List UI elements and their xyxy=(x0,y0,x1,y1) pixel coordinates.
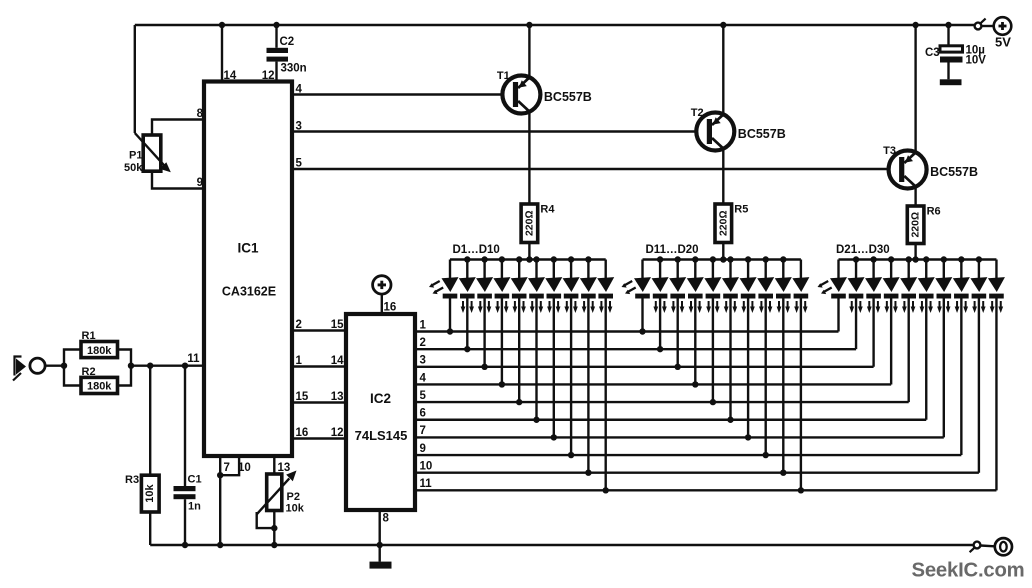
svg-text:IC1: IC1 xyxy=(237,241,259,256)
LED D12 xyxy=(652,277,669,313)
resistor R2 180k (box) xyxy=(81,377,118,393)
wire: D16 cathode to line 6 xyxy=(729,299,731,420)
svg-text:10k: 10k xyxy=(144,484,156,503)
wire: bus to D2 anode xyxy=(466,260,468,279)
junction: bus tap D14 xyxy=(692,256,698,262)
wire: bus to D5 anode xyxy=(518,260,520,279)
wire: D9 cathode to line 10 xyxy=(587,299,589,473)
svg-text:16: 16 xyxy=(384,302,397,314)
LED D15 xyxy=(704,277,721,313)
junction: line 6 / D16 xyxy=(727,417,733,423)
wire: IC1 pin 3 to T2 base xyxy=(292,130,707,132)
wire: bus to D24 anode xyxy=(890,260,892,279)
decoder IC2 74LS145 (box) xyxy=(346,314,415,510)
wire: IC2 output line 3 xyxy=(415,366,874,368)
wire: bus to D20 anode xyxy=(800,260,802,279)
LED D19 xyxy=(775,277,792,313)
wire: IC2 output line 10 xyxy=(415,472,979,474)
junction: bus tap D24 xyxy=(888,256,894,262)
junction: bus tap D18 xyxy=(763,256,769,262)
LED D8 xyxy=(563,277,580,313)
svg-text:C1: C1 xyxy=(188,474,202,486)
wire: T4 collector to R4 xyxy=(528,112,530,204)
svg-text:T2: T2 xyxy=(691,107,704,119)
wire: anode bus bank 2 xyxy=(643,258,801,260)
junction: rail / C3 xyxy=(945,22,951,28)
junction: bus / R4 xyxy=(526,256,532,262)
junction: bus tap D13 xyxy=(675,256,681,262)
junction: line 5 / D5 xyxy=(516,399,522,405)
wire: bus to D12 anode xyxy=(659,260,661,279)
wire: split up to R1 xyxy=(64,350,81,366)
wire: bus to D10 anode xyxy=(605,260,607,279)
wire: rail to T3 emitter xyxy=(914,25,916,152)
junction: pin 8 / ground rail xyxy=(377,542,383,548)
wire: R4 to anode bus xyxy=(528,243,530,260)
svg-text:74LS145: 74LS145 xyxy=(355,428,408,443)
wire: bus to D26 anode xyxy=(925,260,927,279)
LED D24 xyxy=(883,277,900,313)
svg-text:R6: R6 xyxy=(927,206,941,218)
svg-text:220Ω: 220Ω xyxy=(910,212,922,238)
svg-text:R4: R4 xyxy=(540,204,555,216)
junction: P2 wiper/bottom xyxy=(271,525,277,531)
wire: terminal to +5V symbol xyxy=(982,25,994,27)
wire: D28 cathode to line 9 xyxy=(960,299,962,456)
svg-text:R3: R3 xyxy=(125,474,139,486)
junction: line 10 / D9 xyxy=(585,470,591,476)
wire: rail to T1 emitter xyxy=(528,25,530,77)
wire: IC1 pin 10 bracket to pin 7 xyxy=(220,456,239,475)
wire: D21 cathode to line 1 xyxy=(837,299,839,332)
svg-text:D11…D20: D11…D20 xyxy=(646,244,699,256)
junction: bus tap D7 xyxy=(551,256,557,262)
resistor R6 220R (box) xyxy=(907,206,924,244)
wire: D15 cathode to line 5 xyxy=(712,299,714,403)
junction: bus tap D9 xyxy=(585,256,591,262)
junction: rail / IC1 pin 7 xyxy=(217,542,223,548)
junction: rail / C2 xyxy=(273,22,279,28)
LED D30 xyxy=(988,277,1005,313)
LED D29 xyxy=(970,277,987,313)
wire: C3 to ground xyxy=(947,63,949,80)
junction: input split xyxy=(61,363,67,369)
wire: bus to D15 anode xyxy=(712,260,714,279)
wire: D30 cathode to line 11 xyxy=(995,299,997,491)
potentiometer P1 wiper arrow xyxy=(135,133,171,172)
transistor T1 BC557B xyxy=(502,76,540,114)
svg-text:P2: P2 xyxy=(287,491,300,503)
wire: bus to D4 anode xyxy=(501,260,503,279)
LED D23 xyxy=(865,277,882,313)
potentiometer P1 50k (box) xyxy=(143,135,161,171)
LED D10 xyxy=(597,277,614,313)
wire: D8 cathode to line 9 xyxy=(570,299,572,456)
wire: D26 cathode to line 6 xyxy=(925,299,927,420)
svg-text:330n: 330n xyxy=(281,63,307,75)
junction: line 11 / D20 xyxy=(798,487,804,493)
svg-text:1n: 1n xyxy=(188,501,201,513)
svg-text:13: 13 xyxy=(331,391,344,403)
LED D22 xyxy=(848,277,865,313)
svg-text:1: 1 xyxy=(420,319,427,331)
wire: rail left end down to P1 wiper xyxy=(134,25,136,133)
LED D20 xyxy=(792,277,809,313)
wire: C1 to ground rail xyxy=(184,499,186,545)
wire: bus to D6 anode xyxy=(535,260,537,279)
junction: bus tap D29 xyxy=(976,256,982,262)
junction: line 11 / D10 xyxy=(603,487,609,493)
wire: bus to D11 anode xyxy=(641,260,643,279)
wire: T5 collector to R5 xyxy=(722,149,724,204)
capacitor C3 (electrolytic 10u/10V) xyxy=(940,46,963,63)
wire: input node down to C1 xyxy=(184,366,186,486)
svg-text:BC557B: BC557B xyxy=(738,127,786,141)
terminal: 0V (open circle with tick) xyxy=(970,542,981,553)
wire: rail to T2 emitter xyxy=(722,25,724,114)
wire: bus to D29 anode xyxy=(978,260,980,279)
wire: D13 cathode to line 3 xyxy=(677,299,679,367)
svg-text:2: 2 xyxy=(296,319,302,331)
svg-text:C2: C2 xyxy=(280,36,295,48)
wire: T6 collector to R6 xyxy=(914,187,916,206)
wire: ground bottom rail xyxy=(150,544,973,546)
wire: C2 bottom to IC1 pin 12 xyxy=(275,62,277,82)
wire: bus to D28 anode xyxy=(960,260,962,279)
wire: D24 cathode to line 4 xyxy=(890,299,892,385)
wire: D3 cathode to line 3 xyxy=(483,299,485,367)
svg-text:BC557B: BC557B xyxy=(930,165,978,179)
wire: bus to D22 anode xyxy=(855,260,857,279)
LED D13 xyxy=(669,277,686,313)
junction: bus tap D17 xyxy=(745,256,751,262)
connector: input jack symbol xyxy=(13,357,26,381)
svg-text:15: 15 xyxy=(296,391,309,403)
junction: line 3 / D13 xyxy=(675,364,681,370)
LED D4 xyxy=(493,277,510,313)
svg-text:7: 7 xyxy=(224,462,230,474)
svg-text:10: 10 xyxy=(420,461,433,473)
svg-text:P1: P1 xyxy=(129,150,142,162)
LED D5 xyxy=(511,277,528,313)
LED D26 xyxy=(918,277,935,313)
junction: rail / T3 emitter xyxy=(912,22,918,28)
wire: rail to C2 top xyxy=(275,25,277,48)
wire: bus to D3 anode xyxy=(483,260,485,279)
wire: R5 to anode bus xyxy=(722,243,724,260)
junction: line 2 / D2 xyxy=(464,346,470,352)
junction: R3 tap xyxy=(147,363,153,369)
svg-text:R5: R5 xyxy=(734,204,748,216)
transistor T3 BC557B xyxy=(889,151,927,189)
junction: line 5 / D15 xyxy=(710,399,716,405)
terminal: +5V input (open circle with tick) xyxy=(975,19,986,30)
resistor R3 10k (box) xyxy=(141,475,159,512)
junction: bus tap D16 xyxy=(727,256,733,262)
capacitor C2 330n xyxy=(267,48,289,62)
capacitor C1 1n xyxy=(174,486,196,499)
junction: bus / R5 xyxy=(720,256,726,262)
wire: P1 bottom to IC1 pin 9 xyxy=(152,171,204,188)
wire: IC2 output line 6 xyxy=(415,419,926,421)
wire: IC2 output line 4 xyxy=(415,383,891,385)
junction: bus tap D3 xyxy=(481,256,487,262)
wire: IC2 output line 2 xyxy=(415,348,856,350)
junction: line 7 / D17 xyxy=(745,434,751,440)
junction: bus tap D4 xyxy=(499,256,505,262)
svg-text:C3: C3 xyxy=(925,47,940,59)
terminal: input (open circle) xyxy=(30,358,45,373)
wire: + supply to IC2 pin 16 xyxy=(381,294,383,314)
junction: bus tap D26 xyxy=(923,256,929,262)
potentiometer P2 wiper arrow xyxy=(257,471,297,515)
junction: line 3 / D3 xyxy=(481,364,487,370)
wire: anode bus bank 3 xyxy=(839,258,997,260)
svg-text:5V: 5V xyxy=(995,35,1011,50)
junction: C1 tap xyxy=(182,363,188,369)
ground: below C3 xyxy=(940,79,962,85)
LED D27 xyxy=(935,277,952,313)
wire: D17 cathode to line 7 xyxy=(747,299,749,438)
wire: D18 cathode to line 9 xyxy=(765,299,767,456)
svg-text:T1: T1 xyxy=(497,70,510,82)
junction: line 4 / D14 xyxy=(692,381,698,387)
svg-text:50k: 50k xyxy=(124,162,143,174)
junction: bus tap D23 xyxy=(870,256,876,262)
svg-text:R1: R1 xyxy=(82,330,96,342)
svg-text:15: 15 xyxy=(331,319,344,331)
junction: bus tap D6 xyxy=(533,256,539,262)
svg-text:5: 5 xyxy=(296,158,303,170)
junction: line 1 / D1 xyxy=(447,328,453,334)
wire: P2 wiper to bottom terminal xyxy=(257,512,275,528)
svg-text:8: 8 xyxy=(383,513,390,525)
wire: split down to R2 xyxy=(64,366,81,386)
ground: below IC2 pin 8 xyxy=(370,562,392,569)
junction: bus tap D8 xyxy=(568,256,574,262)
wire: P1 top to IC1 pin 8 xyxy=(152,120,204,136)
wire: D19 cathode to line 10 xyxy=(782,299,784,473)
svg-text:220Ω: 220Ω xyxy=(717,210,729,236)
wire: IC2 output line 1 xyxy=(415,330,839,332)
junction: line 2 / D12 xyxy=(657,346,663,352)
wire: IC2 pin 8 to ground xyxy=(379,510,381,562)
wire: bus to D25 anode xyxy=(908,260,910,279)
wire: IC2 output line 5 xyxy=(415,401,909,403)
junction: bus tap D28 xyxy=(958,256,964,262)
LED D11 xyxy=(622,277,652,298)
svg-text:12: 12 xyxy=(331,427,344,439)
junction: bus tap D25 xyxy=(906,256,912,262)
junction: line 9 / D8 xyxy=(568,452,574,458)
junction: line 10 / D19 xyxy=(780,470,786,476)
wire: D20 cathode to line 11 xyxy=(800,299,802,491)
junction: line 1 / D11 xyxy=(639,328,645,334)
svg-text:1: 1 xyxy=(296,355,303,367)
wire: bus to D7 anode xyxy=(553,260,555,279)
wire: IC1 pin 7 to ground rail xyxy=(219,456,221,545)
junction: bus tap D12 xyxy=(657,256,663,262)
wire: D29 cathode to line 10 xyxy=(978,299,980,473)
LED D1 xyxy=(429,277,459,298)
wire: D10 cathode to line 11 xyxy=(605,299,607,491)
wire: IC2 output line 11 xyxy=(415,489,996,491)
svg-text:3: 3 xyxy=(420,355,426,367)
wire: D27 cathode to line 7 xyxy=(943,299,945,438)
resistor R4 220R (box) xyxy=(521,204,538,243)
wire: +5V supply top rail xyxy=(135,24,974,26)
junction: rail / C1 xyxy=(182,542,188,548)
wire: R3 to ground rail xyxy=(149,512,151,545)
wire: IC1 pin 2 to IC2 pin 15 xyxy=(292,329,346,331)
svg-text:6: 6 xyxy=(420,408,426,420)
potentiometer P2 10k (box) xyxy=(267,474,282,511)
svg-text:10: 10 xyxy=(238,462,251,474)
svg-text:2: 2 xyxy=(420,337,426,349)
wire: bus to D18 anode xyxy=(765,260,767,279)
wire: D25 cathode to line 5 xyxy=(908,299,910,403)
wire: bus to D23 anode xyxy=(872,260,874,279)
wire: IC1 pin 5 to T3 base xyxy=(292,168,899,170)
wire: D5 cathode to line 5 xyxy=(518,299,520,403)
transistor T2 BC557B xyxy=(696,113,734,151)
wire: D7 cathode to line 7 xyxy=(553,299,555,438)
LED D14 xyxy=(687,277,704,313)
svg-text:9: 9 xyxy=(420,443,426,455)
junction: rail / IC1 pin 14 xyxy=(219,22,225,28)
junction: line 6 / D6 xyxy=(533,417,539,423)
power symbol: +5V circle with plus xyxy=(994,17,1012,35)
svg-text:7: 7 xyxy=(420,425,426,437)
wire: IC2 output line 9 xyxy=(415,454,961,456)
wire: anode bus bank 1 xyxy=(450,258,606,260)
wire: D6 cathode to line 6 xyxy=(535,299,537,420)
svg-text:R2: R2 xyxy=(82,366,96,378)
terminal symbol: 0 (circle with 0) xyxy=(995,538,1012,555)
op-amp/ADC IC1 CA3162E (box) xyxy=(204,82,292,457)
wire: R1 to join xyxy=(118,350,132,366)
svg-text:T3: T3 xyxy=(883,145,896,157)
power symbol: + supply at IC2 pin 16 xyxy=(373,276,391,294)
svg-text:11: 11 xyxy=(420,478,433,490)
wire: bus to D27 anode xyxy=(943,260,945,279)
wire: rail to IC1 pin 14 xyxy=(221,25,223,82)
wire: bus to D17 anode xyxy=(747,260,749,279)
wire: D22 cathode to line 2 xyxy=(855,299,857,350)
wire: D1 cathode to line 1 xyxy=(449,299,451,332)
LED D3 xyxy=(476,277,493,313)
wire: bus to D13 anode xyxy=(677,260,679,279)
LED D7 xyxy=(545,277,562,313)
wire: D14 cathode to line 4 xyxy=(694,299,696,385)
svg-text:10V: 10V xyxy=(966,55,987,67)
junction: rail / T2 emitter xyxy=(720,22,726,28)
svg-text:IC2: IC2 xyxy=(370,391,391,406)
resistor R5 220R (box) xyxy=(715,204,732,243)
svg-text:5: 5 xyxy=(420,390,427,402)
wire: IC1 pin 4 to T1 base xyxy=(292,93,513,95)
svg-text:180k: 180k xyxy=(87,345,112,357)
svg-text:16: 16 xyxy=(296,427,309,439)
resistor R1 180k (box) xyxy=(81,342,118,358)
wire: input node down to R3 xyxy=(149,366,151,476)
junction: R1/R2 join xyxy=(128,363,134,369)
LED D2 xyxy=(459,277,476,313)
wire: rail to C3 plus plate xyxy=(947,25,949,46)
junction: line 4 / D4 xyxy=(499,381,505,387)
wire: bus to D16 anode xyxy=(729,260,731,279)
junction: bus tap D22 xyxy=(853,256,859,262)
svg-text:BC557B: BC557B xyxy=(544,90,592,104)
junction: line 9 / D18 xyxy=(763,452,769,458)
LED D6 xyxy=(528,277,545,313)
wire: D2 cathode to line 2 xyxy=(466,299,468,350)
wire: IC2 output line 7 xyxy=(415,436,944,438)
junction: pin7/pin10 xyxy=(217,472,223,478)
svg-text:SeekIC.com: SeekIC.com xyxy=(912,560,1025,582)
junction: bus tap D5 xyxy=(516,256,522,262)
junction: bus tap D19 xyxy=(780,256,786,262)
svg-text:D1…D10: D1…D10 xyxy=(453,244,500,256)
wire: IC1 pin 16 to IC2 pin 12 xyxy=(292,437,346,439)
LED D17 xyxy=(740,277,757,313)
junction: line 7 / D7 xyxy=(551,434,557,440)
wire: bus to D21 anode xyxy=(837,260,839,279)
wire: D12 cathode to line 2 xyxy=(659,299,661,350)
wire: R2 to join xyxy=(118,366,132,386)
LED D28 xyxy=(953,277,970,313)
junction: rail / P2 xyxy=(271,542,277,548)
wire: P2 bottom to ground rail xyxy=(273,511,275,546)
wire: bus to D9 anode xyxy=(587,260,589,279)
wire: bus to D19 anode xyxy=(782,260,784,279)
wire: D11 cathode to line 1 xyxy=(641,299,643,332)
wire: terminal to 0 symbol xyxy=(981,544,995,547)
wire: join to IC1 pin 11 xyxy=(131,365,204,367)
LED D21 xyxy=(818,277,848,298)
wire: bus to D1 anode xyxy=(449,260,451,279)
wire: bus to D14 anode xyxy=(694,260,696,279)
wire: bus to D30 anode xyxy=(995,260,997,279)
wire: R6 to anode bus xyxy=(914,244,916,260)
svg-text:CA3162E: CA3162E xyxy=(222,285,276,299)
svg-text:220Ω: 220Ω xyxy=(523,210,535,236)
junction: bus / R6 xyxy=(912,256,918,262)
svg-text:3: 3 xyxy=(296,121,302,133)
wire: input terminal to R1/R2 split xyxy=(45,365,64,367)
junction: bus tap D2 xyxy=(464,256,470,262)
LED D18 xyxy=(757,277,774,313)
wire: D23 cathode to line 3 xyxy=(872,299,874,367)
svg-text:180k: 180k xyxy=(87,381,112,393)
junction: bus tap D15 xyxy=(710,256,716,262)
svg-text:11: 11 xyxy=(187,353,200,365)
wire: bus to D8 anode xyxy=(570,260,572,279)
junction: bus tap D27 xyxy=(941,256,947,262)
LED D9 xyxy=(580,277,597,313)
svg-text:4: 4 xyxy=(420,372,427,384)
junction: rail / T1 emitter xyxy=(526,22,532,28)
wire: IC1 pin 1 to IC2 pin 14 xyxy=(292,365,346,367)
svg-text:4: 4 xyxy=(296,84,303,96)
svg-text:10k: 10k xyxy=(286,503,305,515)
wire: D4 cathode to line 4 xyxy=(501,299,503,385)
LED D25 xyxy=(900,277,917,313)
wire: IC1 pin 15 to IC2 pin 13 xyxy=(292,401,346,403)
svg-text:14: 14 xyxy=(331,355,344,367)
svg-text:D21…D30: D21…D30 xyxy=(836,244,890,256)
wire: IC1 pin 13 to P2 xyxy=(273,456,275,474)
